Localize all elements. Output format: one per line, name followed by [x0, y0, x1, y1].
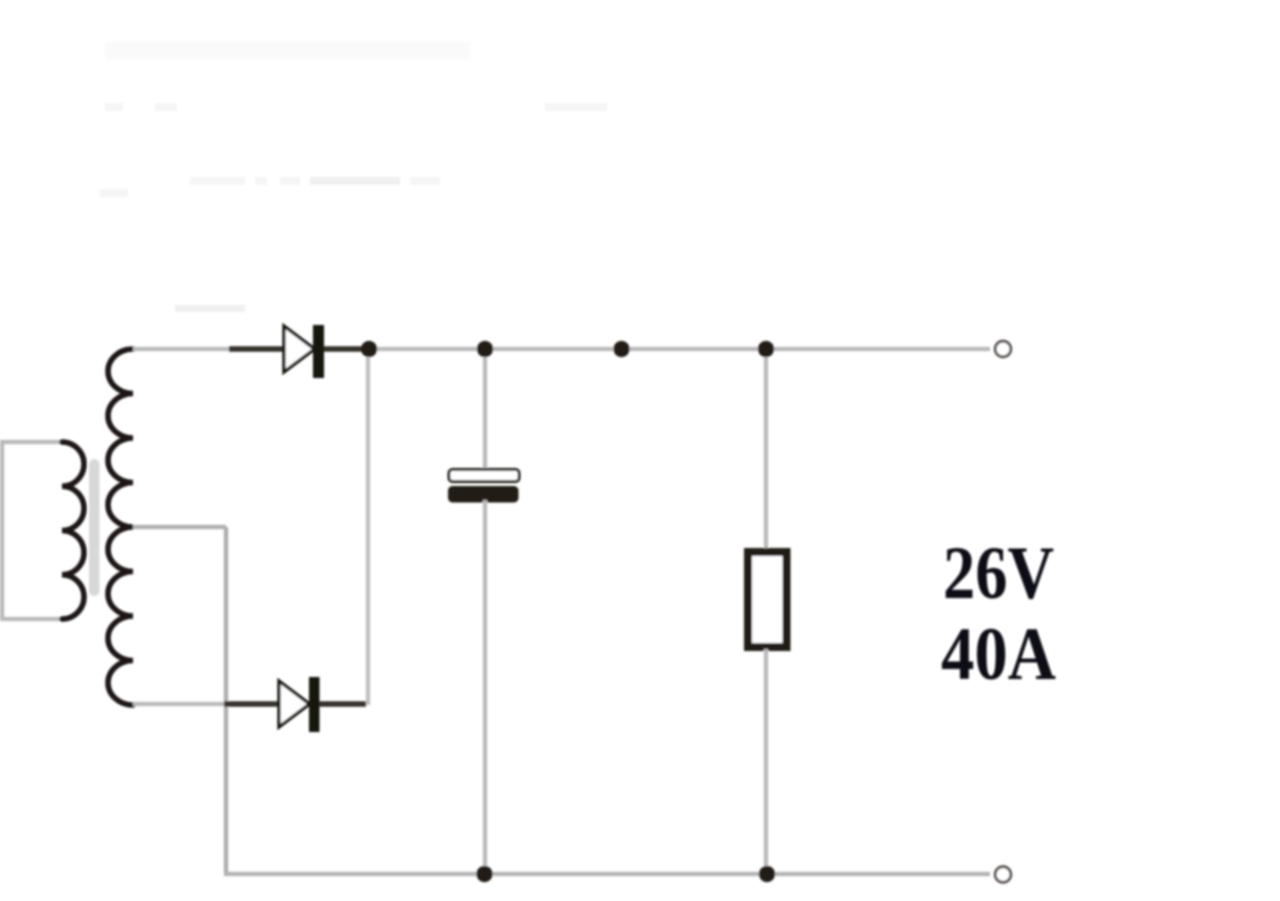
wire: center tap horizontal	[133, 525, 226, 529]
diode VD1 cathode bar	[313, 325, 324, 378]
transformer T1 primary winding	[62, 442, 84, 619]
diode VD1 anode lead	[229, 346, 284, 352]
junction dot: capacitor bottom node	[476, 866, 492, 882]
wire: center tap vertical down to bottom rail	[224, 527, 228, 874]
wire: resistor upper wire	[764, 349, 768, 550]
junction dot: capacitor top node	[477, 341, 493, 357]
junction dot: mid top rail node	[613, 341, 629, 357]
junction dot: diode cathodes node	[361, 341, 377, 357]
wire: cathodes joining vertical	[366, 351, 370, 705]
wire: primary left vertical at image edge	[0, 442, 4, 619]
terminal: negative output	[995, 867, 1011, 883]
wire: primary bottom lead	[0, 617, 62, 621]
diode VD2 cathode bar	[309, 677, 320, 732]
transformer T1 core	[89, 459, 100, 596]
junction dot: resistor top node	[758, 341, 774, 357]
wire: top output rail	[364, 347, 990, 351]
diode VD2 cathode lead	[319, 701, 366, 707]
junction dot: resistor bottom node	[759, 866, 775, 882]
wire: secondary top to diode VD1	[133, 347, 232, 351]
terminal: positive output	[995, 341, 1011, 357]
transformer T1 secondary winding	[108, 349, 133, 705]
capacitor C1 negative plate	[448, 486, 519, 503]
diode VD2 anode lead	[224, 701, 279, 707]
diode VD1 cathode lead	[324, 346, 366, 352]
wire: resistor lower wire	[764, 649, 768, 874]
wire: capacitor upper wire	[483, 349, 487, 472]
svg-text:26V: 26V	[943, 532, 1054, 615]
diode VD1 triangle	[284, 326, 315, 372]
wire: capacitor lower wire	[483, 500, 487, 874]
resistor R1 load	[748, 552, 787, 647]
svg-text:40A: 40A	[941, 613, 1056, 696]
wire: secondary bottom to diode VD2	[133, 702, 232, 706]
wire: bottom return rail	[224, 872, 990, 876]
capacitor C1 positive plate	[449, 470, 519, 482]
diode VD2 triangle	[279, 681, 310, 727]
ghost artifact marks	[100, 42, 607, 312]
wire: primary top lead	[0, 440, 62, 444]
